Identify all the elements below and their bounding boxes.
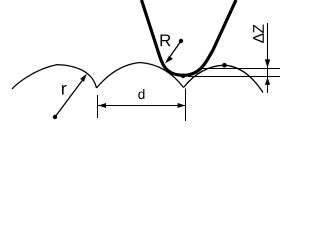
R arrowhead [165, 56, 173, 63]
label d [138, 89, 144, 99]
R arrow leader dot [179, 39, 183, 43]
dot on ball bottom [181, 74, 186, 79]
horizontal line P (tool bottom tangent level) [188, 76, 280, 78]
scallop arc 3 (right, under tool) [184, 65, 264, 92]
label R [161, 35, 171, 47]
d dimension right arrowhead [178, 103, 186, 108]
d dimension extension line left [97, 95, 99, 118]
delta-Z up arrowhead [265, 77, 270, 85]
horizontal line Q (upper surface level) [202, 68, 280, 70]
scallop arc 1 (radius r surface, left) [12, 65, 97, 89]
d dimension line [98, 105, 185, 107]
delta-Z dimension vertical line [267, 23, 269, 93]
r arrowhead [80, 74, 87, 82]
R arrow line [168, 41, 182, 60]
delta-Z down arrowhead [265, 59, 270, 68]
dot on arc3 crest [222, 63, 227, 68]
r arrow leader dot [53, 115, 57, 119]
delta-Z label (rotated) [253, 24, 264, 42]
tool outline U1 (ball-end cutter, thick) [142, 0, 237, 75]
scallop arc 2 (between cusps) [97, 63, 184, 89]
label r [62, 85, 66, 95]
d dimension extension line right [185, 89, 187, 122]
r arrow line [55, 78, 85, 118]
d dimension left arrowhead [98, 103, 106, 108]
